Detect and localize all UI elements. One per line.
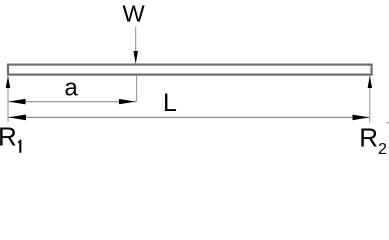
- svg-text:2: 2: [378, 141, 387, 156]
- svg-text:W: W: [123, 1, 146, 27]
- svg-text:L: L: [163, 89, 177, 117]
- svg-text:R: R: [359, 123, 378, 153]
- svg-text:a: a: [64, 75, 78, 102]
- svg-text:R: R: [0, 122, 17, 152]
